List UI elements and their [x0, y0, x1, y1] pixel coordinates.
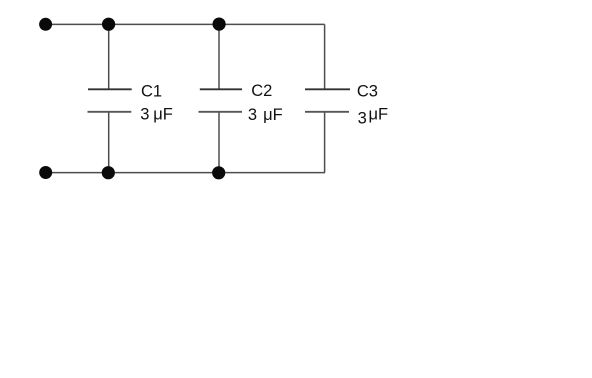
wire right vertical drop from top rail to C3 top plate [324, 24, 326, 89]
capacitor C2 plates [199, 89, 243, 112]
svg-text:3: 3 [248, 106, 257, 124]
svg-text:μF: μF [263, 106, 283, 124]
wire C2 top branch [218, 24, 220, 89]
wire C3 bottom branch [324, 112, 326, 173]
value label C2 3 uF [248, 106, 283, 124]
node junction top rail / C1 [102, 18, 115, 31]
capacitor C1 plates [88, 89, 132, 112]
svg-text:C2: C2 [251, 82, 272, 100]
svg-text:C3: C3 [357, 83, 378, 101]
wire C1 top branch [108, 24, 110, 89]
svg-text:3: 3 [140, 106, 149, 124]
wire bottom rail [45, 172, 325, 174]
node junction top rail / C2 [213, 18, 226, 31]
value label C3 3 uF [358, 105, 388, 127]
wire C1 bottom branch [108, 112, 110, 173]
value label C1 3 uF [140, 106, 172, 124]
label C2 [251, 82, 272, 100]
wire top rail [45, 23, 325, 25]
svg-text:C1: C1 [141, 83, 162, 101]
node terminal top-left [39, 18, 52, 31]
capacitor C3 plates [305, 89, 350, 112]
node junction bottom rail / C1 [102, 166, 115, 179]
node terminal bottom-left [39, 166, 52, 179]
label C3 [357, 83, 378, 101]
svg-text:μF: μF [369, 105, 389, 123]
svg-text:3: 3 [358, 109, 367, 127]
wire C2 bottom branch [218, 112, 220, 173]
svg-text:μF: μF [153, 106, 173, 124]
label C1 [141, 83, 162, 101]
node junction bottom rail / C2 [212, 166, 225, 179]
